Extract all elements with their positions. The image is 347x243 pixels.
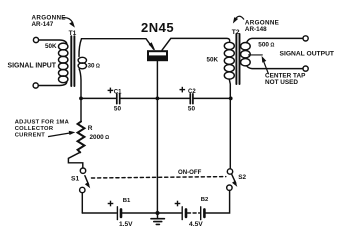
svg-text:SIGNAL OUTPUT: SIGNAL OUTPUT bbox=[280, 51, 335, 58]
svg-text:T1: T1 bbox=[69, 30, 77, 37]
svg-text:30 Ω: 30 Ω bbox=[88, 62, 100, 69]
svg-text:50: 50 bbox=[188, 106, 196, 113]
svg-text:CURRENT: CURRENT bbox=[15, 133, 46, 139]
svg-text:4.5V: 4.5V bbox=[189, 221, 203, 228]
svg-text:2000 Ω: 2000 Ω bbox=[90, 134, 110, 141]
svg-text:ADJUST FOR 1MA: ADJUST FOR 1MA bbox=[15, 120, 70, 126]
svg-text:S1: S1 bbox=[71, 176, 79, 183]
svg-text:C2: C2 bbox=[188, 89, 196, 95]
svg-text:50: 50 bbox=[114, 106, 122, 113]
svg-text:R: R bbox=[88, 125, 93, 132]
svg-text:500 Ω: 500 Ω bbox=[258, 41, 274, 48]
svg-text:B2: B2 bbox=[201, 197, 209, 203]
svg-text:C1: C1 bbox=[114, 90, 122, 96]
svg-text:50K: 50K bbox=[45, 43, 57, 50]
svg-text:1.5V: 1.5V bbox=[119, 221, 133, 228]
svg-text:S2: S2 bbox=[238, 174, 246, 181]
svg-text:T2: T2 bbox=[232, 29, 240, 36]
svg-text:NOT USED: NOT USED bbox=[265, 79, 298, 86]
svg-text:B1: B1 bbox=[123, 198, 131, 204]
svg-text:2N45: 2N45 bbox=[141, 20, 174, 35]
svg-text:AR-147: AR-147 bbox=[32, 21, 54, 28]
svg-text:SIGNAL INPUT: SIGNAL INPUT bbox=[8, 63, 57, 70]
svg-text:COLLECTOR: COLLECTOR bbox=[15, 126, 54, 132]
svg-text:50K: 50K bbox=[207, 56, 219, 63]
svg-text:ON-OFF: ON-OFF bbox=[178, 169, 202, 176]
svg-text:AR-148: AR-148 bbox=[245, 26, 267, 33]
